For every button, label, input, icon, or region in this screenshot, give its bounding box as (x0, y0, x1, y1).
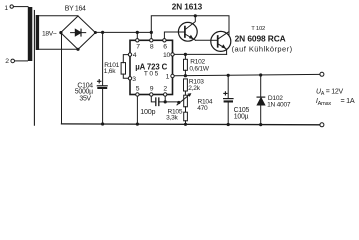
junction wiper (177, 101, 180, 104)
junction R105 ground (184, 123, 187, 126)
svg-text:1: 1 (166, 74, 170, 81)
transistor Q2 2N6098 (211, 31, 231, 54)
pin 9 (150, 85, 154, 96)
pin 2 (163, 85, 167, 96)
svg-text:6: 6 (163, 43, 167, 50)
label C104 value (75, 82, 93, 102)
svg-text:5: 5 (136, 85, 140, 92)
wire Q2 emitter rail to pin10 (174, 53, 226, 55)
junction pin2 / cap wire (164, 100, 167, 103)
wire terminal1 to primary (14, 6, 28, 8)
transformer primary winding (28, 7, 33, 61)
junction D102 ground (259, 123, 262, 126)
svg-text:2N 6098 RCA: 2N 6098 RCA (235, 33, 286, 43)
resistor R105 (166, 107, 187, 125)
junction plus rail / pin7 (136, 31, 139, 34)
svg-text:2N 1613: 2N 1613 (172, 3, 203, 12)
capacitor 100p (140, 96, 179, 116)
wire C104 to ground rail (102, 89, 104, 124)
pin 3 (128, 76, 136, 83)
svg-text:4: 4 (133, 52, 137, 59)
junction plus rail / pin8 riser (150, 31, 153, 34)
bridge rectifier BY164 diamond (61, 16, 96, 49)
wire pin5 to ground (136, 96, 138, 124)
junction bridge right vertex (94, 31, 97, 34)
svg-text:35V: 35V (79, 95, 91, 102)
junction bridge left vertex (59, 31, 62, 34)
wire plus rail from bridge to IC pins (95, 31, 151, 33)
IC U1 uA723C box (130, 40, 173, 94)
svg-text:(auf Kühlkörper): (auf Kühlkörper) (232, 44, 293, 53)
junction R102/R103/pin1 (184, 74, 187, 77)
svg-text:100p: 100p (140, 107, 155, 116)
node terminal 2 (5, 58, 14, 65)
svg-text:T 102: T 102 (251, 26, 265, 32)
capacitor C104 (97, 80, 107, 89)
resistor R102 (184, 54, 210, 75)
pin 7 (136, 32, 141, 50)
svg-text:3: 3 (132, 76, 136, 83)
pin 4 (128, 52, 137, 59)
node output plus terminal (320, 72, 324, 76)
wire riser pin8 node to collector line (151, 16, 229, 36)
junction pin5 ground (136, 123, 139, 126)
svg-text:BY 164: BY 164 (65, 5, 86, 12)
svg-text:9: 9 (150, 85, 154, 92)
svg-text:2: 2 (163, 85, 167, 92)
node output minus terminal (320, 123, 324, 127)
pin 1 (166, 74, 175, 81)
svg-text:7: 7 (136, 43, 140, 50)
wire pin2 down (164, 96, 166, 102)
svg-text:10: 10 (163, 52, 171, 59)
pin 10 (163, 52, 174, 59)
junction plus rail / C104 (101, 31, 104, 34)
wire bridge minus down to ground rail (61, 33, 63, 124)
svg-text:2,2k: 2,2k (188, 85, 200, 92)
resistor R103 (184, 79, 205, 96)
junction bridge bottom vertex (76, 48, 79, 51)
svg-text:470: 470 (197, 105, 208, 112)
transistor Q1 2N1613 (178, 16, 197, 41)
junction mid rail / D102 (259, 73, 262, 76)
output mid rail (174, 74, 319, 75)
junction C104 ground (101, 122, 104, 125)
junction Q1 collector (194, 14, 197, 17)
svg-text:2: 2 (5, 58, 9, 65)
svg-text:8: 8 (150, 43, 154, 50)
wire terminal2 to primary (15, 60, 28, 62)
svg-text:18V~: 18V~ (42, 31, 57, 38)
svg-text:100µ: 100µ (234, 114, 249, 121)
resistor R101 (104, 55, 128, 79)
ground rail (62, 123, 320, 126)
diode D102 (257, 75, 291, 125)
capacitor C105 (224, 75, 250, 124)
pin 6 (163, 39, 168, 51)
pin 5 (136, 85, 140, 96)
svg-text:1,6k: 1,6k (104, 68, 116, 75)
wire secondary top to bridge (39, 15, 78, 17)
pin 6 wire to Q1 base (164, 32, 178, 39)
svg-text:1N 4007: 1N 4007 (267, 102, 291, 109)
svg-text:0,6/1W: 0,6/1W (189, 66, 209, 73)
svg-text:1: 1 (4, 5, 8, 12)
bridge internal diode (71, 29, 86, 36)
svg-text:T05: T05 (144, 70, 160, 77)
transformer secondary winding 18V (36, 15, 39, 50)
potentiometer R104 (177, 93, 213, 112)
node terminal 1 (4, 5, 13, 12)
wire C104 branch upper (102, 32, 104, 85)
pin 8 (150, 32, 154, 50)
wire Q1 emitter to Q2 base (196, 39, 211, 41)
wire secondary bottom to bridge (39, 48, 78, 50)
svg-text:3,3k: 3,3k (166, 114, 178, 121)
junction C105 ground (227, 123, 230, 126)
junction mid rail / C105 (227, 74, 230, 77)
junction emitter rail / R102 (184, 53, 187, 56)
transformer core / chassis line (33, 11, 35, 126)
